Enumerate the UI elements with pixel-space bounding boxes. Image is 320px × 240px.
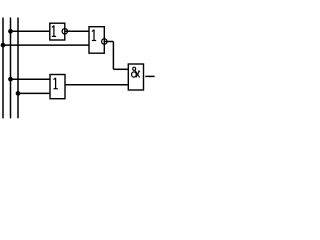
- wire U2 output horizontal: [104, 41, 113, 43]
- wire B: bus1 to NOR U2 lower input: [3, 44, 89, 46]
- inverter U1 output bubble: [62, 29, 67, 34]
- junction dot on bus 2 feeding wire C: [8, 77, 13, 82]
- bus line 2 (middle vertical wire): [10, 18, 12, 119]
- AND gate U3 label &: [132, 67, 141, 77]
- wire into AND U3 upper input: [113, 68, 128, 70]
- bus line 1 (left vertical wire): [2, 18, 4, 119]
- wire U1 output to U2 input: [65, 30, 89, 32]
- NOR gate U2 label 1: [92, 30, 96, 41]
- output wire from AND U3: [145, 75, 154, 77]
- OR gate U4 body: [50, 75, 65, 99]
- wire D: bus3 to OR U4 lower input: [18, 92, 50, 94]
- junction dot on bus 2 feeding wire A: [8, 29, 13, 34]
- wire C: bus2 to OR U4 upper input: [11, 78, 51, 80]
- NOR gate U2 body: [89, 27, 104, 54]
- inverter U1 label 1: [52, 25, 56, 36]
- NOR gate U2 output bubble: [102, 39, 107, 44]
- AND gate U3 body: [128, 64, 143, 90]
- junction dot on bus 1 feeding wire B: [1, 43, 6, 48]
- junction dot on bus 3 feeding wire D: [16, 91, 21, 96]
- OR gate U4 label 1: [54, 78, 58, 89]
- wire U2 output vertical drop: [112, 42, 114, 70]
- wire E: U4 output to AND U3 lower input: [65, 84, 128, 86]
- wire A: bus2 to inverter U1 input: [11, 30, 50, 32]
- bus line 3 (right vertical wire): [17, 18, 19, 119]
- inverter U1 body: [50, 23, 65, 40]
